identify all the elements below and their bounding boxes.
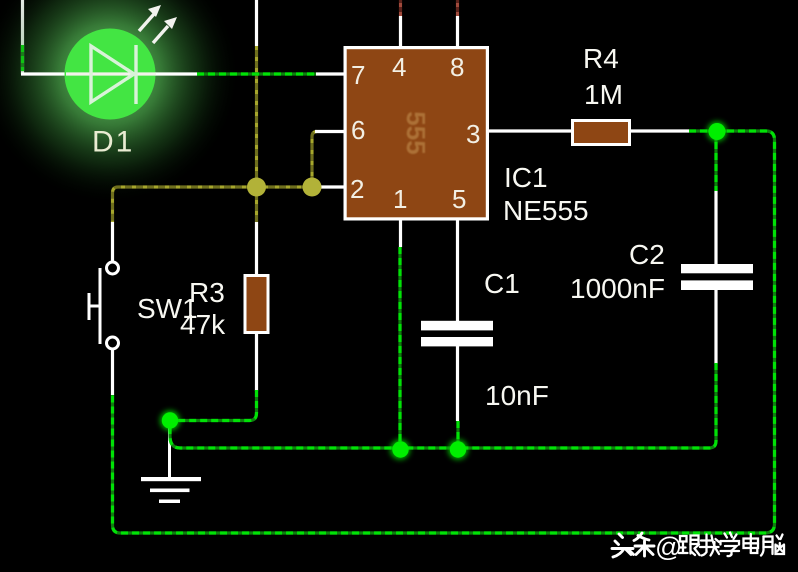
- svg-text:C1: C1: [484, 268, 520, 299]
- svg-text:8: 8: [450, 52, 464, 82]
- wire: R4 to output node: [629, 129, 714, 132]
- svg-text:IC1: IC1: [504, 162, 548, 193]
- watermark 跟我学电脑: [679, 533, 784, 557]
- wire: olive vertical from top edge to node A (pins 2/6 net): [255, 0, 258, 222]
- node B junction (olive): [303, 178, 322, 197]
- wire: olive horizontal from switch to pin 2 node: [113, 187, 313, 222]
- node: pin1 ground junction: [390, 440, 410, 460]
- svg-text:C2: C2: [629, 239, 665, 270]
- svg-text:@: @: [655, 532, 682, 562]
- svg-text:NE555: NE555: [503, 195, 589, 226]
- LED D1: [65, 29, 157, 120]
- svg-text:555: 555: [401, 111, 431, 154]
- capacitor C2: [681, 264, 753, 290]
- LED D1 glow: [0, 0, 238, 202]
- wire: pin 8 power stub: [456, 0, 459, 48]
- resistor R4: [573, 121, 630, 145]
- wire: output node around right side and bottom to switch: [113, 131, 775, 533]
- wire: olive riser from node B to pin 6: [312, 132, 346, 188]
- svg-text:10nF: 10nF: [485, 380, 549, 411]
- svg-text:2: 2: [350, 174, 364, 204]
- node: output junction (green): [707, 122, 727, 142]
- svg-text:1: 1: [393, 184, 407, 214]
- wire: LED horizontal lead (node to pin 7): [21, 72, 346, 75]
- capacitor C1: [421, 321, 493, 347]
- svg-text:3: 3: [466, 119, 480, 149]
- svg-text:D1: D1: [92, 126, 134, 159]
- ground symbol: [141, 421, 201, 503]
- wire: output node down to C2: [714, 131, 717, 265]
- svg-text:5: 5: [452, 184, 466, 214]
- resistor R3: [245, 222, 268, 391]
- svg-text:R4: R4: [583, 43, 619, 74]
- watermark 头条: [612, 533, 654, 557]
- wire: pin 1 to ground rail (green): [398, 247, 401, 449]
- switch SW1: [88, 222, 119, 395]
- svg-text:1000nF: 1000nF: [570, 273, 665, 304]
- svg-text:1M: 1M: [584, 79, 623, 110]
- node: C1 ground junction: [448, 440, 468, 460]
- wire: pin 4 power stub: [399, 0, 402, 48]
- svg-text:6: 6: [351, 115, 365, 145]
- svg-text:7: 7: [351, 60, 365, 90]
- wire: pin 3 to R4: [487, 129, 573, 132]
- wire: C2 bottom lead: [714, 290, 717, 364]
- node A junction (olive): [247, 178, 266, 197]
- wire: top-left vertical lead into LED anode: [21, 0, 24, 74]
- wire: pin 2 stub: [312, 185, 346, 188]
- op IC1 555 body: [345, 48, 487, 219]
- wire: R3 bottom to ground junction (green): [176, 390, 257, 421]
- LED D1 emission arrows: [139, 5, 177, 43]
- svg-text:SW1: SW1: [137, 293, 198, 324]
- node: ground junction: [160, 411, 180, 431]
- svg-text:4: 4: [392, 52, 406, 82]
- wire: pin 1 stub down: [399, 219, 402, 247]
- wire: pin 5 lead to C1: [456, 219, 459, 322]
- wire: ground rail horizontal (green): [170, 363, 716, 448]
- wire: C1 bottom lead: [456, 346, 460, 449]
